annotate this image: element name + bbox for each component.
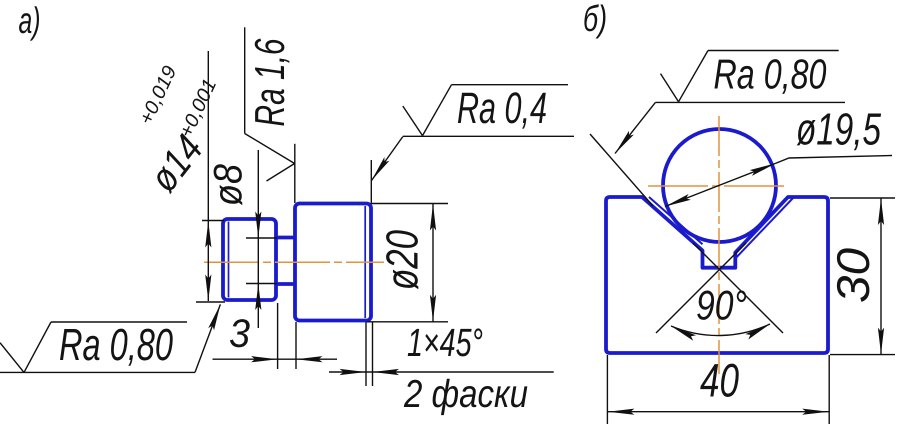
- dimension d14 text with tolerances (rotated): [141, 127, 211, 200]
- dimension d14: dimension line: [207, 51, 209, 301]
- dimension 30 text (rotated): [827, 248, 879, 303]
- svg-text:40: 40: [700, 354, 739, 407]
- svg-text:2 фаски: 2 фаски: [403, 373, 528, 416]
- roughness Ra 0,80 (view a): diagonal: [24, 322, 51, 372]
- chamfer line left cylinder: [228, 222, 230, 298]
- roughness Ra 0,80 (view a): top shelf: [51, 321, 187, 323]
- svg-text:3: 3: [229, 312, 250, 356]
- svg-text:Ra 0,80: Ra 0,80: [59, 319, 173, 370]
- V-block body: [606, 197, 828, 353]
- dimension d20: dimension line: [432, 204, 434, 322]
- dimension d14: extension line bottom: [196, 301, 225, 303]
- centerline vertical (orange): [718, 116, 720, 374]
- roughness Ra 0,80 (view b): top shelf: [708, 50, 839, 52]
- dimension 3: extension line right: [295, 322, 297, 369]
- svg-text:Ra 0,4: Ra 0,4: [457, 84, 547, 133]
- svg-text:ø19,5: ø19,5: [796, 104, 882, 155]
- dimension d19,5: line through circle: [665, 163, 776, 206]
- roughness Ra 0,4: extension line above cylinder: [370, 160, 372, 204]
- neck top line: [275, 236, 297, 240]
- dimension d8: hidden-edge extension line bottom: [246, 283, 277, 285]
- dimension 40: dimension line: [607, 411, 829, 413]
- roughness Ra 0,80 (view a): tick left arm: [0, 343, 24, 373]
- V-groove inner line right: [735, 198, 793, 259]
- svg-text:30: 30: [827, 248, 879, 303]
- dimension 3: dimension line: [213, 358, 338, 360]
- roughness Ra 0,4: tick diagonal to top shelf: [423, 85, 452, 136]
- dimension 30: extension line bottom: [830, 354, 895, 356]
- angle construction line NE-SW: [656, 243, 746, 333]
- dimension d8: hidden-edge extension line top: [246, 237, 277, 239]
- dimension d20 text (rotated): [377, 230, 428, 290]
- roughness Ra 0,4: top shelf: [452, 84, 569, 86]
- centerline horizontal (orange): [648, 185, 788, 187]
- dimension 1x45: dimension/shelf line: [329, 371, 554, 373]
- dimension 40: extension line left: [606, 355, 608, 424]
- dimension d14: extension line top: [202, 220, 224, 222]
- roughness Ra 0,80 (view b): V-wall extension line: [590, 134, 653, 206]
- roughness Ra 0,80 (view b): bottom shelf: [655, 101, 845, 103]
- cylinder body D14 (left): [223, 219, 276, 300]
- centerline (orange) of shaft: [204, 261, 384, 263]
- roughness Ra 1,6: tick arm: [267, 164, 295, 182]
- dimension 1x45: extension line right: [372, 322, 374, 386]
- dimension d8: dimension line: [257, 150, 259, 328]
- svg-text:а): а): [19, 0, 41, 41]
- roughness Ra 0,80 (view a): bottom shelf: [0, 371, 195, 373]
- neck bottom line: [275, 282, 297, 286]
- svg-text:Ra 1,6: Ra 1,6: [246, 38, 293, 126]
- angle arc 90: [671, 324, 770, 336]
- cylinder body D20 (right): [295, 204, 371, 321]
- roughness Ra 1,6 text (rotated): [246, 38, 293, 126]
- dimension 30: dimension line: [880, 198, 882, 355]
- roughness Ra 0,4: bottom shelf: [403, 135, 574, 137]
- dimension d8 text (rotated): [207, 163, 251, 206]
- chamfer line right cylinder: [364, 206, 366, 318]
- centerline redrawn over cylinders: [204, 261, 384, 263]
- dimension 40: extension line right: [828, 355, 830, 424]
- dimension d19,5: leader shelf: [776, 156, 893, 164]
- dimension 3: extension line left: [277, 303, 279, 369]
- roughness Ra 1,6: diagonal to tick: [245, 134, 295, 164]
- svg-text:Ra 0,80: Ra 0,80: [714, 51, 827, 98]
- roughness Ra 1,6: shelf vertical line: [244, 27, 246, 133]
- roughness Ra 0,4: tick left arm: [403, 106, 423, 136]
- dimension d20: extension line top: [371, 203, 448, 205]
- roughness Ra 1,6: extension line to cylinder corner: [294, 144, 296, 203]
- V-groove inner line left: [649, 197, 703, 244]
- cylinder circle: [663, 129, 776, 242]
- roughness Ra 0,80 (view b): tick left arm: [661, 74, 679, 102]
- svg-text:ø20: ø20: [377, 230, 428, 290]
- roughness Ra 0,4: leader arrow: [372, 137, 403, 181]
- roughness Ra 0,80 (view b): tick diagonal: [679, 51, 709, 102]
- svg-text:б): б): [583, 0, 607, 39]
- svg-text:90°: 90°: [696, 282, 747, 329]
- roughness Ra 0,80 (view b): leader with arrow: [615, 102, 655, 153]
- dimension 30: extension line top: [830, 197, 895, 199]
- svg-text:1×45°: 1×45°: [407, 321, 483, 365]
- dimension 1x45: extension line left: [365, 322, 367, 386]
- roughness Ra 0,80 (view a): leader with arrow to cylinder corner: [195, 304, 220, 372]
- svg-text:ø8: ø8: [207, 163, 251, 206]
- angle construction line NW-SE: [693, 243, 783, 333]
- dimension d20: extension line bottom: [367, 321, 448, 323]
